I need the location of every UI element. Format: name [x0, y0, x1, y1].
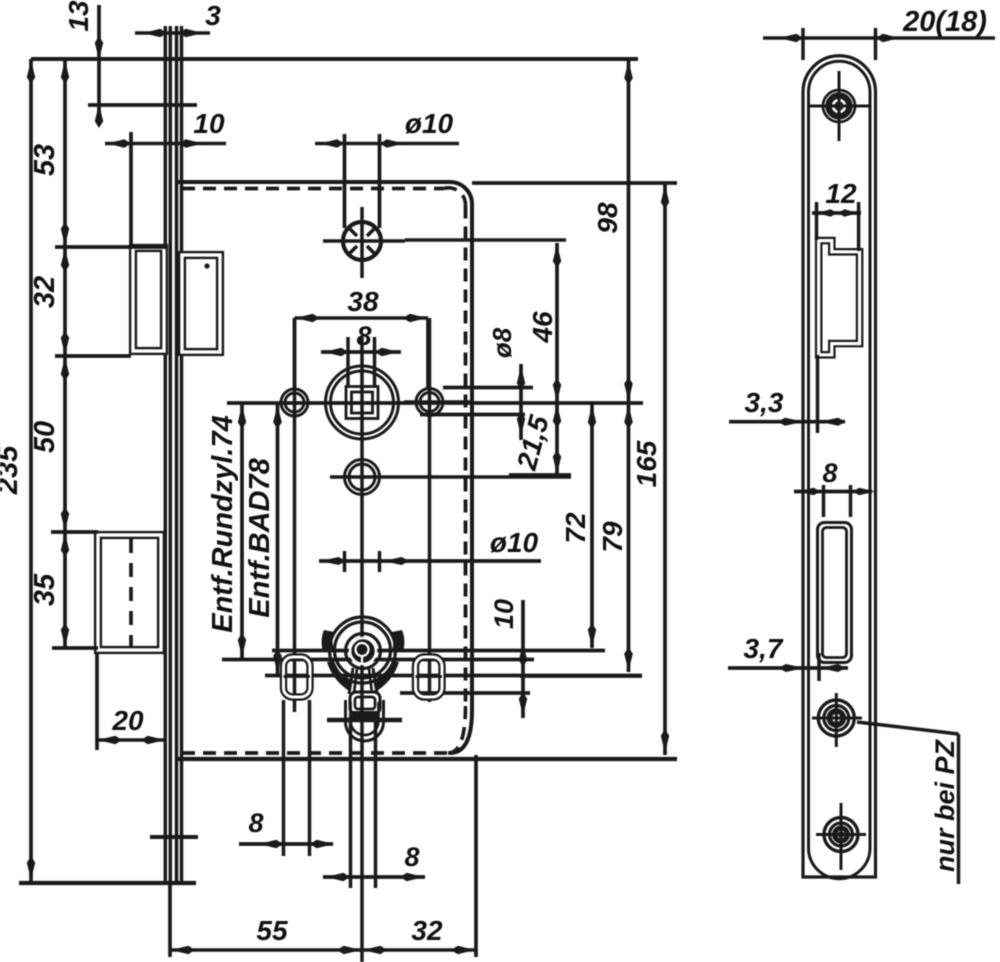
side view top screw — [808, 71, 870, 141]
svg-text:nur bei PZ: nur bei PZ — [930, 738, 960, 872]
dim Entf.Rundzyl.74 — [207, 403, 534, 660]
dim 3,7 — [728, 633, 848, 681]
svg-text:55: 55 — [256, 915, 288, 946]
svg-text:8: 8 — [248, 808, 263, 838]
svg-text:53: 53 — [29, 144, 61, 176]
dim 38 (hole spacing) — [295, 286, 429, 388]
side view PZ screw upper — [812, 693, 862, 747]
dim 98 / 79 (shared vertical line) — [520, 59, 642, 676]
dim 8 (hub square) — [321, 321, 401, 387]
svg-text:3: 3 — [205, 0, 221, 31]
latch bolt head — [133, 248, 164, 351]
case bottom edge / 165 extension line — [178, 757, 677, 761]
svg-text:8: 8 — [356, 321, 371, 351]
latch bolt tail inside case — [182, 255, 220, 352]
dim ø8 (vertical at right) — [420, 327, 533, 440]
ø8 hole right of hub — [404, 318, 470, 702]
svg-text:79: 79 — [597, 521, 628, 553]
dim 3,3 — [729, 355, 846, 433]
follower hub with square — [326, 366, 399, 439]
svg-text:20: 20 — [111, 705, 144, 736]
keyhole cylinder (RZ/PZ/BB overlay) — [322, 617, 405, 741]
svg-text:Entf.BAD78: Entf.BAD78 — [244, 457, 276, 617]
svg-text:21,5: 21,5 — [511, 412, 555, 474]
svg-text:10: 10 — [193, 108, 225, 139]
dim 20(18) (plate width) — [763, 6, 995, 60]
oval fixing screw left — [284, 657, 311, 697]
lock case inner dashed outline — [182, 188, 466, 753]
dim 55 / 32 (bottom) — [170, 755, 476, 957]
svg-text:ø8: ø8 — [487, 327, 517, 358]
oval fixing screw right — [416, 657, 443, 697]
leader and note nur bei PZ — [857, 722, 960, 884]
hub horizontal centre line — [227, 401, 643, 405]
svg-text:32: 32 — [411, 915, 443, 946]
lower screw hole ø10 below hub — [330, 460, 571, 495]
svg-text:35: 35 — [29, 573, 61, 606]
dim 235 (overall) — [0, 59, 35, 881]
dim 13 (vertical, top left) — [63, 0, 197, 128]
dim 21,5 — [509, 403, 571, 475]
label ø10 (lower hole) with leader — [319, 527, 541, 572]
svg-text:98: 98 — [592, 202, 623, 234]
svg-text:12: 12 — [825, 178, 857, 209]
dim 8 (deadbolt cutout width) — [794, 458, 875, 517]
side view plate outline — [803, 56, 876, 879]
svg-text:46: 46 — [527, 311, 558, 344]
side view PZ screw lower — [816, 803, 866, 870]
svg-text:32: 32 — [29, 276, 61, 308]
faceplate (Stulp) front view — [19, 26, 198, 884]
ø8 hole left of hub — [281, 318, 308, 712]
svg-text:10: 10 — [489, 599, 519, 629]
dim ø10 (top hole) — [315, 108, 459, 228]
svg-text:20(18): 20(18) — [902, 6, 987, 38]
svg-text:235: 235 — [0, 445, 24, 495]
deadbolt cutout in side plate — [818, 523, 852, 663]
svg-text:8: 8 — [404, 842, 419, 872]
svg-text:72: 72 — [560, 512, 591, 544]
svg-text:38: 38 — [347, 286, 379, 317]
dim 10 (latch projection) — [105, 108, 226, 246]
deadbolt — [98, 535, 161, 650]
svg-text:Entf.Rundzyl.74: Entf.Rundzyl.74 — [207, 415, 239, 633]
svg-text:3,7: 3,7 — [744, 633, 784, 664]
svg-text:50: 50 — [29, 421, 61, 453]
latch cutout in side plate — [819, 241, 860, 355]
dim Entf.BAD78 — [244, 403, 642, 676]
svg-text:13: 13 — [63, 0, 94, 32]
svg-text:ø10: ø10 — [405, 108, 454, 139]
dim 46 — [527, 243, 561, 403]
dim 8 (keyhole width) — [323, 716, 425, 888]
svg-text:165: 165 — [631, 440, 662, 487]
dim 165 — [472, 183, 677, 755]
svg-text:3,3: 3,3 — [745, 387, 784, 418]
dim 20 (deadbolt throw) — [97, 652, 166, 750]
dim 3 (faceplate thickness) — [135, 0, 221, 37]
top screw hole with cross — [323, 207, 566, 278]
dim chain 53 / 32 / 50 / 35 (left) — [29, 59, 167, 648]
svg-text:8: 8 — [822, 458, 837, 488]
dim 10 (keyhole offset) — [400, 599, 530, 718]
svg-text:ø10: ø10 — [490, 527, 539, 558]
top reference line — [31, 57, 638, 61]
dim 72 — [272, 403, 605, 651]
lock case outline (solid with rounded corners) — [178, 182, 472, 753]
dim 12 (latch cutout) — [812, 178, 861, 251]
vertical centre line (hub/keyhole axis) — [360, 207, 364, 962]
dim 8 (left oval width) — [239, 700, 334, 856]
